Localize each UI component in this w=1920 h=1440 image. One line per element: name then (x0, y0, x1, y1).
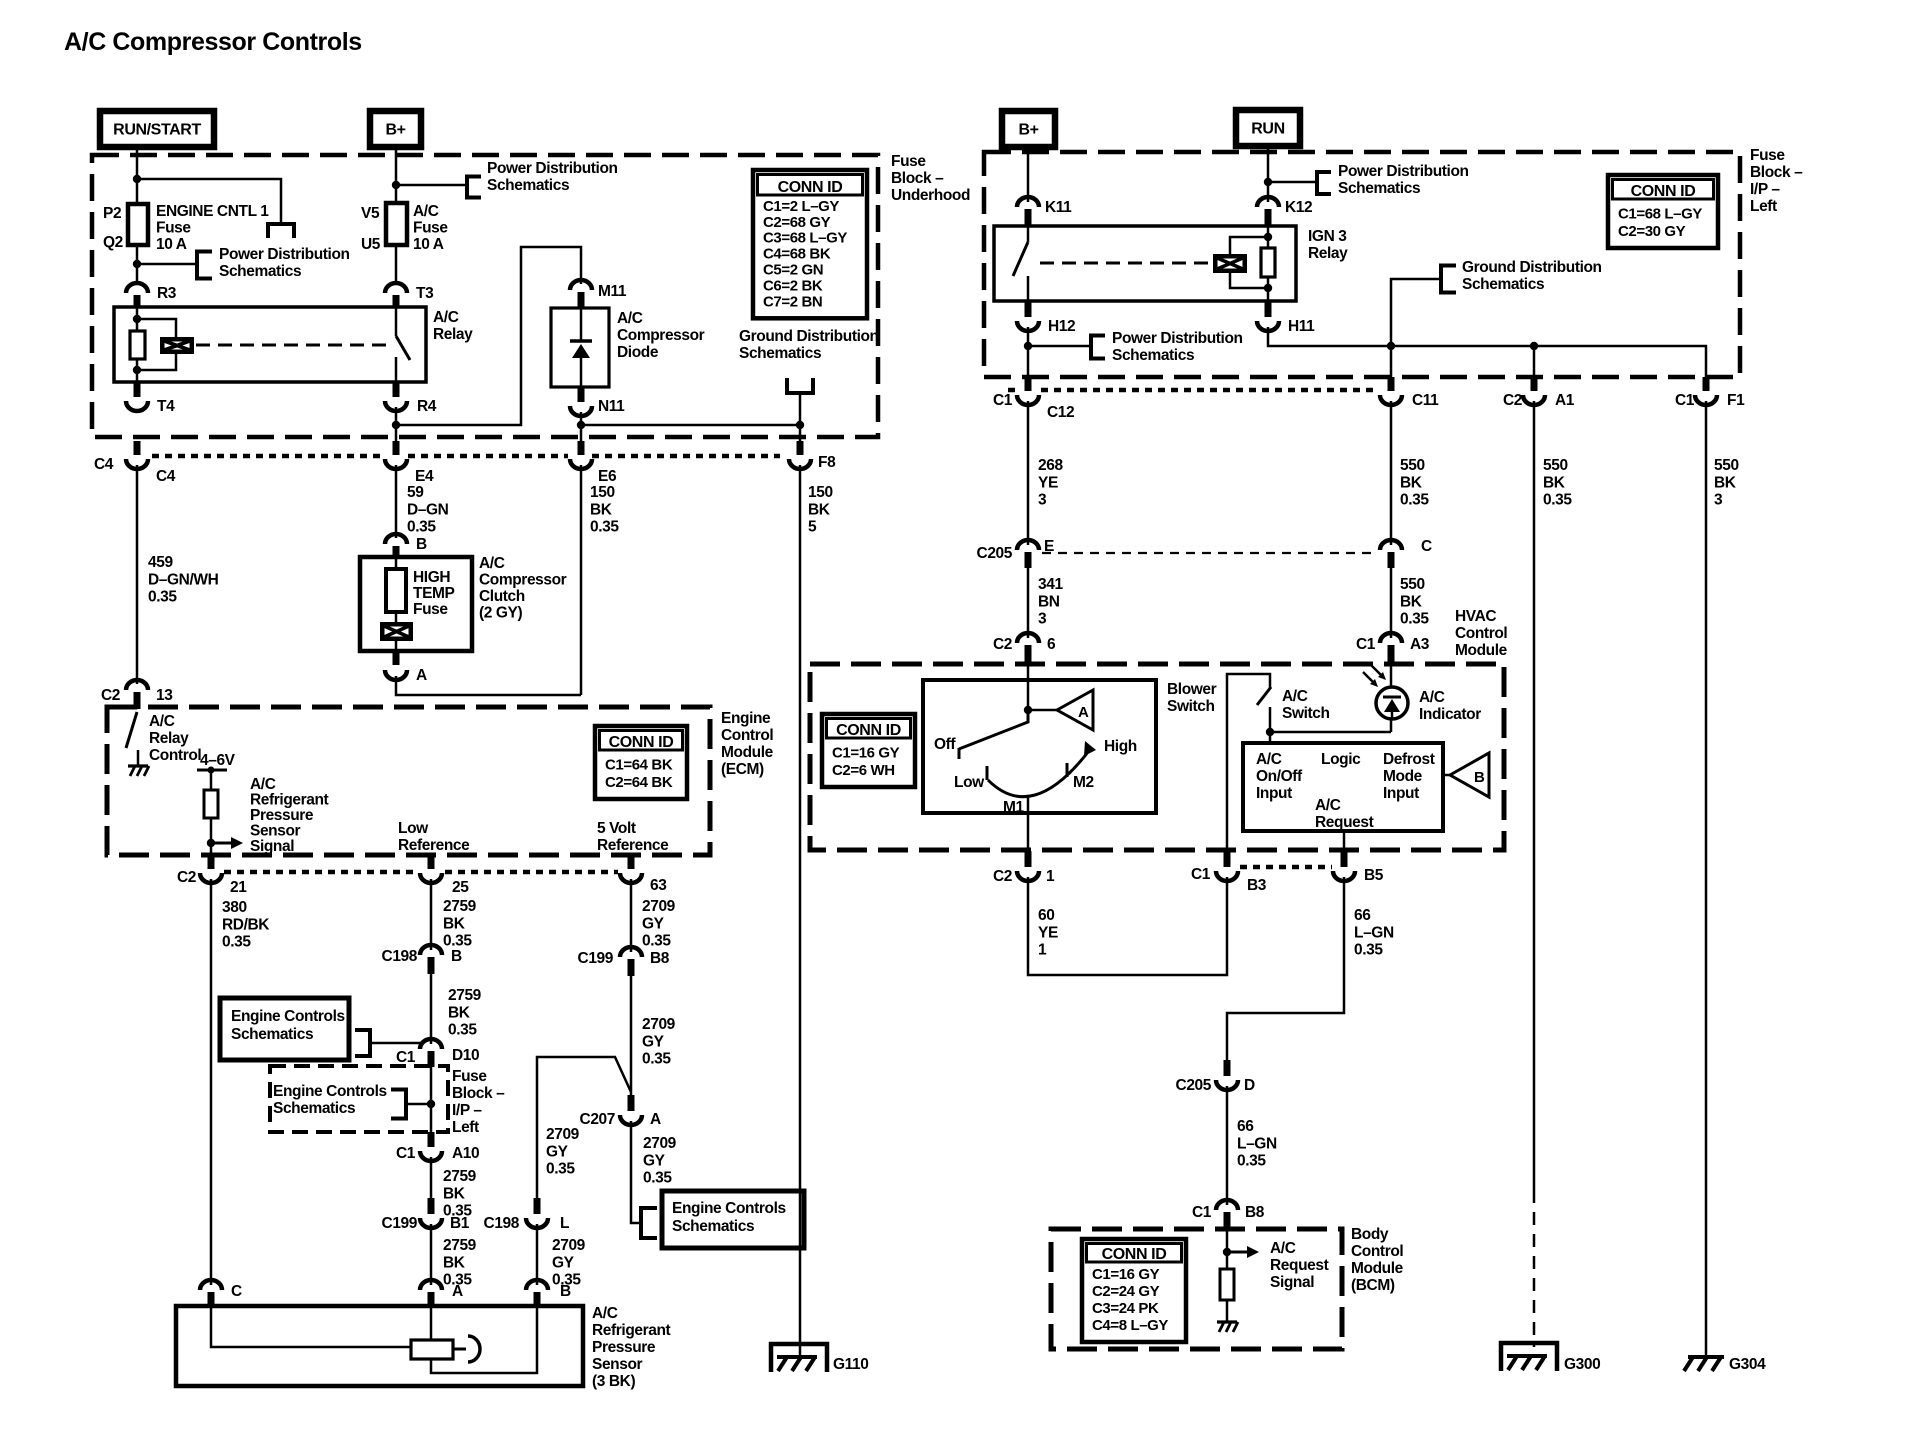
svg-text:Module: Module (1455, 642, 1508, 659)
svg-text:C2: C2 (101, 687, 120, 704)
svg-text:5 Volt: 5 Volt (597, 820, 636, 837)
svg-text:B1: B1 (450, 1215, 470, 1232)
wire A1 dashed to G300 (1533, 1190, 1536, 1347)
svg-text:I/P –: I/P – (452, 1102, 482, 1119)
connector C2-21 (208, 855, 215, 869)
node H12 junction (1024, 342, 1032, 350)
relay linkage dashed (196, 344, 390, 347)
svg-text:Ground Distribution: Ground Distribution (1462, 259, 1602, 276)
node relay coil bottom (133, 366, 141, 374)
svg-text:B: B (1474, 769, 1485, 786)
BCM resistor (1220, 1269, 1234, 1300)
svg-text:I/P –: I/P – (1750, 181, 1780, 198)
connector N11 (578, 387, 585, 402)
svg-text:Module: Module (721, 744, 774, 761)
fuse block I/P small dashed box (270, 1066, 448, 1132)
node signal tap (207, 839, 215, 847)
wire C198 B to D10 (430, 974, 433, 1044)
svg-text:R3: R3 (157, 285, 177, 302)
wire supply to resistor (210, 770, 213, 790)
connector C205-E (1017, 540, 1039, 550)
wire F8 to G110 (799, 465, 802, 1356)
relay coil parallel branch (137, 319, 176, 337)
wire E6 down (580, 465, 583, 695)
wire C207 A to ECS3 fork (631, 1121, 640, 1223)
svg-text:Request: Request (1315, 814, 1374, 831)
svg-text:2709: 2709 (642, 898, 676, 915)
svg-text:Engine Controls: Engine Controls (672, 1200, 786, 1217)
power feed box B+ (right) (1002, 111, 1055, 147)
off-page fork ECS3 (639, 1206, 643, 1240)
sensor supply bar (197, 769, 227, 772)
svg-text:Schematics: Schematics (219, 263, 301, 280)
svg-text:Left: Left (452, 1119, 479, 1136)
svg-text:C4: C4 (94, 456, 114, 473)
svg-text:BK: BK (443, 1185, 466, 1202)
svg-text:A/C: A/C (1270, 1240, 1296, 1257)
node F8 junction (796, 421, 804, 429)
svg-text:BK: BK (443, 915, 466, 932)
svg-text:(ECM): (ECM) (721, 761, 764, 778)
IGN3 resistor (1261, 248, 1275, 277)
svg-text:C198: C198 (484, 1215, 520, 1232)
svg-text:Block –: Block – (452, 1085, 505, 1102)
svg-text:2709: 2709 (642, 1016, 676, 1033)
svg-text:C7=2 BN: C7=2 BN (763, 293, 822, 310)
BCM input wire (1226, 1230, 1229, 1269)
node junction on B+ wire (392, 181, 400, 189)
svg-text:A/C: A/C (617, 310, 643, 327)
svg-text:Underhood: Underhood (891, 187, 970, 204)
wire C12 to C205 E (1027, 401, 1030, 545)
connector R4 (393, 382, 400, 397)
svg-text:Block –: Block – (891, 170, 944, 187)
connector C207-A (628, 1095, 635, 1111)
svg-text:A10: A10 (452, 1145, 479, 1162)
connector E6 (578, 441, 585, 455)
connector C1-A10 (428, 1132, 435, 1147)
A/C compressor diode box (551, 308, 609, 387)
off-page fork ECS2 (404, 1088, 408, 1121)
svg-text:Body: Body (1351, 1226, 1389, 1243)
svg-text:YE: YE (1038, 474, 1058, 491)
blower high arrow (1084, 741, 1096, 756)
svg-text:C: C (1421, 538, 1432, 555)
svg-text:C3=24 PK: C3=24 PK (1092, 1300, 1159, 1317)
svg-text:E4: E4 (415, 468, 434, 485)
connector F1 (1703, 377, 1710, 391)
svg-text:C2=6 WH: C2=6 WH (832, 762, 895, 779)
connector B (sensor) (526, 1280, 548, 1290)
svg-text:C207: C207 (580, 1111, 615, 1128)
svg-text:L–GN: L–GN (1354, 924, 1394, 941)
blower rotary arc (988, 752, 1088, 797)
node IGN3 top (1264, 233, 1272, 241)
fuse A/C (V5/U5) (386, 203, 407, 245)
svg-text:C199: C199 (382, 1215, 418, 1232)
svg-text:T4: T4 (157, 398, 175, 415)
svg-text:Input: Input (1256, 785, 1292, 802)
wire B+ down to fuse V5 (395, 147, 398, 203)
clutch fuse to coil wire (395, 612, 398, 622)
power feed box RUN (1236, 110, 1300, 146)
svg-text:Control: Control (1455, 625, 1507, 642)
svg-text:Schematics: Schematics (1338, 180, 1420, 197)
connector T3 (385, 283, 407, 293)
sensor wire B (431, 1306, 537, 1373)
wire to off-page fork 2 (137, 263, 197, 266)
svg-text:C2=64 BK: C2=64 BK (605, 774, 673, 791)
svg-text:Relay: Relay (433, 326, 473, 343)
svg-text:C1: C1 (993, 392, 1013, 409)
svg-text:CONN ID: CONN ID (609, 734, 674, 751)
relay coil feed wire (136, 307, 139, 331)
svg-text:Switch: Switch (1282, 705, 1330, 722)
svg-text:C5=2 GN: C5=2 GN (763, 262, 823, 279)
svg-text:D–GN/WH: D–GN/WH (148, 571, 219, 588)
svg-text:150: 150 (808, 484, 833, 501)
svg-text:Power Distribution: Power Distribution (487, 160, 618, 177)
svg-text:Q2: Q2 (103, 234, 123, 251)
svg-text:Left: Left (1750, 198, 1777, 215)
wire H11 bus (1268, 327, 1706, 381)
svg-text:C1: C1 (1675, 392, 1695, 409)
A/C indicator arrows (1363, 672, 1375, 684)
svg-text:E6: E6 (598, 468, 617, 485)
svg-text:U5: U5 (361, 236, 381, 253)
svg-text:P2: P2 (103, 205, 121, 222)
svg-text:C2: C2 (177, 869, 196, 886)
svg-text:C4: C4 (156, 468, 176, 485)
A/C relay box (114, 307, 426, 382)
svg-text:Pressure: Pressure (592, 1339, 656, 1356)
svg-text:0.35: 0.35 (222, 934, 251, 951)
wire F1 to G304 (1705, 401, 1708, 1357)
IGN3 switch top wire (1027, 226, 1030, 242)
svg-text:1: 1 (1046, 868, 1055, 885)
svg-text:High: High (1104, 738, 1137, 755)
svg-text:59: 59 (407, 484, 424, 501)
svg-text:Switch: Switch (1167, 698, 1215, 715)
svg-text:Signal: Signal (250, 838, 294, 855)
blower M2 tick (1066, 763, 1069, 777)
fuse block underhood dashed box (92, 155, 878, 437)
svg-text:A/C: A/C (149, 713, 175, 730)
svg-text:459: 459 (148, 554, 173, 571)
connector C4 (134, 441, 141, 455)
svg-text:0.35: 0.35 (407, 519, 436, 536)
svg-text:C: C (231, 1283, 242, 1300)
off-page fork ECS1 (368, 1028, 372, 1058)
svg-text:268: 268 (1038, 457, 1063, 474)
svg-text:Low: Low (954, 774, 985, 791)
svg-text:0.35: 0.35 (642, 1051, 671, 1068)
wire C2-1 to C1-B3 (1028, 877, 1227, 975)
Engine Controls Schematics box 2 (662, 1191, 804, 1248)
connector C198-L (534, 1198, 541, 1214)
A/C switch lower wire (1269, 707, 1272, 743)
wire C199 B8 down (630, 976, 633, 1095)
svg-text:25: 25 (452, 879, 469, 896)
svg-text:R4: R4 (417, 398, 437, 415)
blower feed wire (1027, 664, 1030, 710)
svg-text:Schematics: Schematics (1112, 347, 1194, 364)
node junction below fuse Q2 (133, 260, 141, 268)
svg-text:C1: C1 (1192, 1204, 1212, 1221)
ECM pullup resistor (204, 790, 218, 818)
IGN3 resistor out (1267, 277, 1270, 301)
svg-text:Fuse: Fuse (156, 220, 191, 237)
svg-text:A/C Compressor Controls: A/C Compressor Controls (64, 28, 362, 56)
svg-text:A: A (650, 1111, 661, 1128)
svg-text:2709: 2709 (546, 1126, 580, 1143)
blower wiper blade (959, 711, 1028, 749)
connector C2-1 (1025, 851, 1032, 867)
svg-text:N11: N11 (598, 398, 625, 415)
wire B+ right down to K11 (1027, 147, 1030, 202)
svg-text:13: 13 (156, 687, 173, 704)
svg-text:H11: H11 (1288, 318, 1315, 335)
svg-text:Fuse: Fuse (891, 153, 926, 170)
wire E4 to clutch B (395, 465, 398, 538)
connector H11 (1265, 301, 1272, 317)
svg-text:66: 66 (1354, 907, 1371, 924)
connector H12 (1025, 301, 1032, 317)
IGN3 switch blade (1013, 242, 1028, 276)
svg-text:G304: G304 (1729, 1356, 1766, 1373)
svg-text:A1: A1 (1555, 392, 1575, 409)
ECM CONN ID table (595, 726, 687, 799)
relay switch top wire (395, 307, 398, 336)
svg-text:BK: BK (1714, 474, 1737, 491)
connector C199-B8 (620, 947, 642, 957)
svg-text:A3: A3 (1410, 636, 1430, 653)
svg-text:IGN 3: IGN 3 (1308, 228, 1347, 245)
svg-text:380: 380 (222, 899, 247, 916)
A/C indicator wire out (1390, 719, 1393, 732)
node A1 junction (1530, 342, 1538, 350)
A/C request output wire (1343, 831, 1346, 851)
svg-text:Control: Control (1351, 1243, 1403, 1260)
wire resistor to bottom node (136, 359, 139, 382)
wire C11 to C205 C (1390, 401, 1393, 545)
svg-text:0.35: 0.35 (1354, 942, 1383, 959)
svg-text:C198: C198 (382, 948, 418, 965)
svg-text:Schematics: Schematics (487, 177, 569, 194)
svg-text:Schematics: Schematics (273, 1100, 355, 1117)
svg-text:B: B (451, 948, 462, 965)
svg-text:CONN ID: CONN ID (836, 722, 901, 739)
off-page fork power distribution 5 (1089, 334, 1093, 361)
svg-text:BK: BK (1400, 593, 1423, 610)
blower off tick (958, 748, 961, 759)
svg-text:2759: 2759 (443, 1237, 477, 1254)
A/C relay control switch (126, 712, 137, 748)
svg-text:A/C: A/C (1256, 751, 1282, 768)
defrost triangle B wire (1443, 774, 1450, 777)
wire to off-page fork 3 (396, 184, 467, 187)
svg-text:3: 3 (1714, 492, 1723, 509)
connector C11 (1388, 377, 1395, 391)
svg-text:V5: V5 (361, 205, 380, 222)
svg-text:C2=68 GY: C2=68 GY (763, 214, 831, 231)
svg-text:Fuse: Fuse (413, 601, 448, 618)
svg-text:10 A: 10 A (413, 236, 444, 253)
ECM dashed box (107, 707, 710, 855)
wire C198 L to sensor B (536, 1224, 539, 1285)
svg-text:C3=68 L–GY: C3=68 L–GY (763, 230, 847, 247)
wire indicator to junction (1270, 731, 1391, 734)
svg-text:C205: C205 (1176, 1077, 1212, 1094)
svg-text:A/C: A/C (413, 203, 439, 220)
svg-text:341: 341 (1038, 576, 1063, 593)
wire fork to F8 (799, 393, 802, 441)
connector C1-B3 (1224, 851, 1231, 867)
svg-text:GY: GY (643, 1152, 666, 1169)
svg-text:C11: C11 (1412, 392, 1439, 409)
svg-text:Control: Control (721, 727, 773, 744)
svg-text:Refrigerant: Refrigerant (250, 792, 329, 809)
wire C4 to ECM 13 (136, 465, 139, 684)
blower triangle A wire (1028, 709, 1057, 712)
connector T4 (134, 382, 141, 397)
svg-text:10 A: 10 A (156, 236, 187, 253)
node A/C switch junction (1266, 728, 1274, 736)
svg-text:A/C: A/C (592, 1305, 618, 1322)
svg-text:L: L (560, 1215, 569, 1232)
svg-text:66: 66 (1237, 1118, 1254, 1135)
svg-text:(BCM): (BCM) (1351, 1277, 1395, 1294)
connector C2-6 (1017, 633, 1039, 643)
svg-text:Indicator: Indicator (1419, 706, 1481, 723)
signal arrow (211, 842, 232, 845)
BCM resistor out wire (1226, 1300, 1229, 1322)
connector K12 (1257, 197, 1279, 207)
wire D to C1-B8 (1226, 1086, 1229, 1205)
svg-text:BK: BK (443, 1254, 466, 1271)
I/P CONN ID table (1608, 175, 1718, 248)
connector C1-D10 (420, 1039, 442, 1049)
relay switch bottom wire (395, 357, 398, 382)
svg-text:0.35: 0.35 (1543, 492, 1572, 509)
svg-text:Engine Controls: Engine Controls (231, 1008, 345, 1025)
wire C199 B1 to sensor A (430, 1224, 433, 1285)
diode symbol (570, 339, 592, 343)
svg-text:A: A (1078, 704, 1089, 721)
svg-text:F1: F1 (1727, 392, 1745, 409)
connector C (sensor) (200, 1280, 222, 1290)
wire N11 junction to F8 drop (581, 424, 800, 427)
svg-text:63: 63 (650, 877, 667, 894)
wire to off-page fork (run) (1268, 181, 1317, 184)
svg-text:BK: BK (808, 501, 831, 518)
connector E4 (393, 441, 400, 455)
wire C to C1-A3 (1390, 568, 1393, 638)
svg-text:C1=2 L–GY: C1=2 L–GY (763, 198, 839, 215)
svg-text:D10: D10 (452, 1047, 479, 1064)
IGN3 linkage dashed (1040, 262, 1211, 265)
diode wire in (580, 308, 583, 341)
svg-text:YE: YE (1038, 924, 1058, 941)
node R4 junction (392, 421, 400, 429)
wire fuse U5 down to T3 (395, 245, 398, 283)
svg-text:RD/BK: RD/BK (222, 916, 270, 933)
svg-text:D: D (1244, 1077, 1255, 1094)
svg-text:Power Distribution: Power Distribution (1112, 330, 1243, 347)
svg-text:C2: C2 (993, 636, 1012, 653)
svg-text:CONN ID: CONN ID (1102, 1246, 1167, 1263)
wire diode feed (396, 247, 581, 425)
wire resistor to signal node (210, 818, 213, 856)
IGN 3 relay box (994, 226, 1296, 301)
A/C switch feed wire (1227, 674, 1270, 851)
svg-text:Control: Control (149, 747, 201, 764)
svg-text:BK: BK (1543, 474, 1566, 491)
svg-text:550: 550 (1543, 457, 1568, 474)
svg-text:C1=16 GY: C1=16 GY (832, 745, 900, 762)
svg-text:C12: C12 (1047, 404, 1074, 421)
svg-text:RUN/START: RUN/START (113, 122, 201, 139)
svg-text:B+: B+ (1018, 122, 1038, 139)
svg-text:Compressor: Compressor (617, 327, 705, 344)
svg-text:M2: M2 (1073, 774, 1094, 791)
svg-text:0.35: 0.35 (546, 1161, 575, 1178)
wire 25 to C198 B (430, 879, 433, 950)
off-page fork ground distribution (left) (785, 391, 815, 395)
inline connector line C1 right (dotted) (1008, 388, 1015, 393)
IGN3 coil branch bottom (1230, 273, 1268, 288)
svg-text:Block –: Block – (1750, 164, 1803, 181)
svg-text:F8: F8 (818, 454, 836, 471)
BCM dashed box (1051, 1229, 1342, 1349)
connector C199-B1 (428, 1198, 435, 1214)
svg-text:Blower: Blower (1167, 681, 1217, 698)
svg-text:C2=30 GY: C2=30 GY (1618, 223, 1686, 240)
wire C11 riser (1391, 279, 1441, 381)
clutch fuse wire in (395, 557, 398, 569)
svg-text:1: 1 (1038, 942, 1047, 959)
svg-text:BK: BK (1400, 474, 1423, 491)
svg-text:0.35: 0.35 (148, 589, 177, 606)
Engine Controls Schematics box 1 (220, 998, 349, 1060)
svg-text:M11: M11 (598, 283, 627, 300)
svg-text:Low: Low (398, 820, 429, 837)
svg-text:(3 BK): (3 BK) (592, 1373, 635, 1390)
blower output triangle A (1057, 690, 1093, 730)
off-page fork power distribution 3 (465, 175, 469, 200)
svg-text:G300: G300 (1564, 1356, 1600, 1373)
inline connector dots B3-B5 (1240, 865, 1332, 870)
svg-text:2709: 2709 (552, 1237, 586, 1254)
connector C205-D (1224, 1060, 1231, 1076)
connector K11 (1017, 197, 1039, 207)
off-page fork power distribution 4 (1315, 170, 1319, 196)
node junction RUN wire (1264, 178, 1272, 186)
svg-text:K11: K11 (1045, 199, 1072, 216)
svg-text:A/C: A/C (479, 555, 505, 572)
svg-text:C1: C1 (396, 1049, 416, 1066)
blower M1 output wire (1027, 797, 1030, 851)
connector F8 (797, 441, 804, 455)
svg-text:D–GN: D–GN (407, 501, 449, 518)
wire RUN/START down to fuse P2 (136, 147, 139, 204)
svg-text:2759: 2759 (443, 1168, 477, 1185)
svg-text:RUN: RUN (1251, 121, 1284, 138)
svg-text:Reference: Reference (597, 837, 669, 854)
svg-text:CONN ID: CONN ID (778, 179, 843, 196)
ground G110 (771, 1344, 827, 1372)
wire 21 to sensor C (210, 879, 213, 1285)
